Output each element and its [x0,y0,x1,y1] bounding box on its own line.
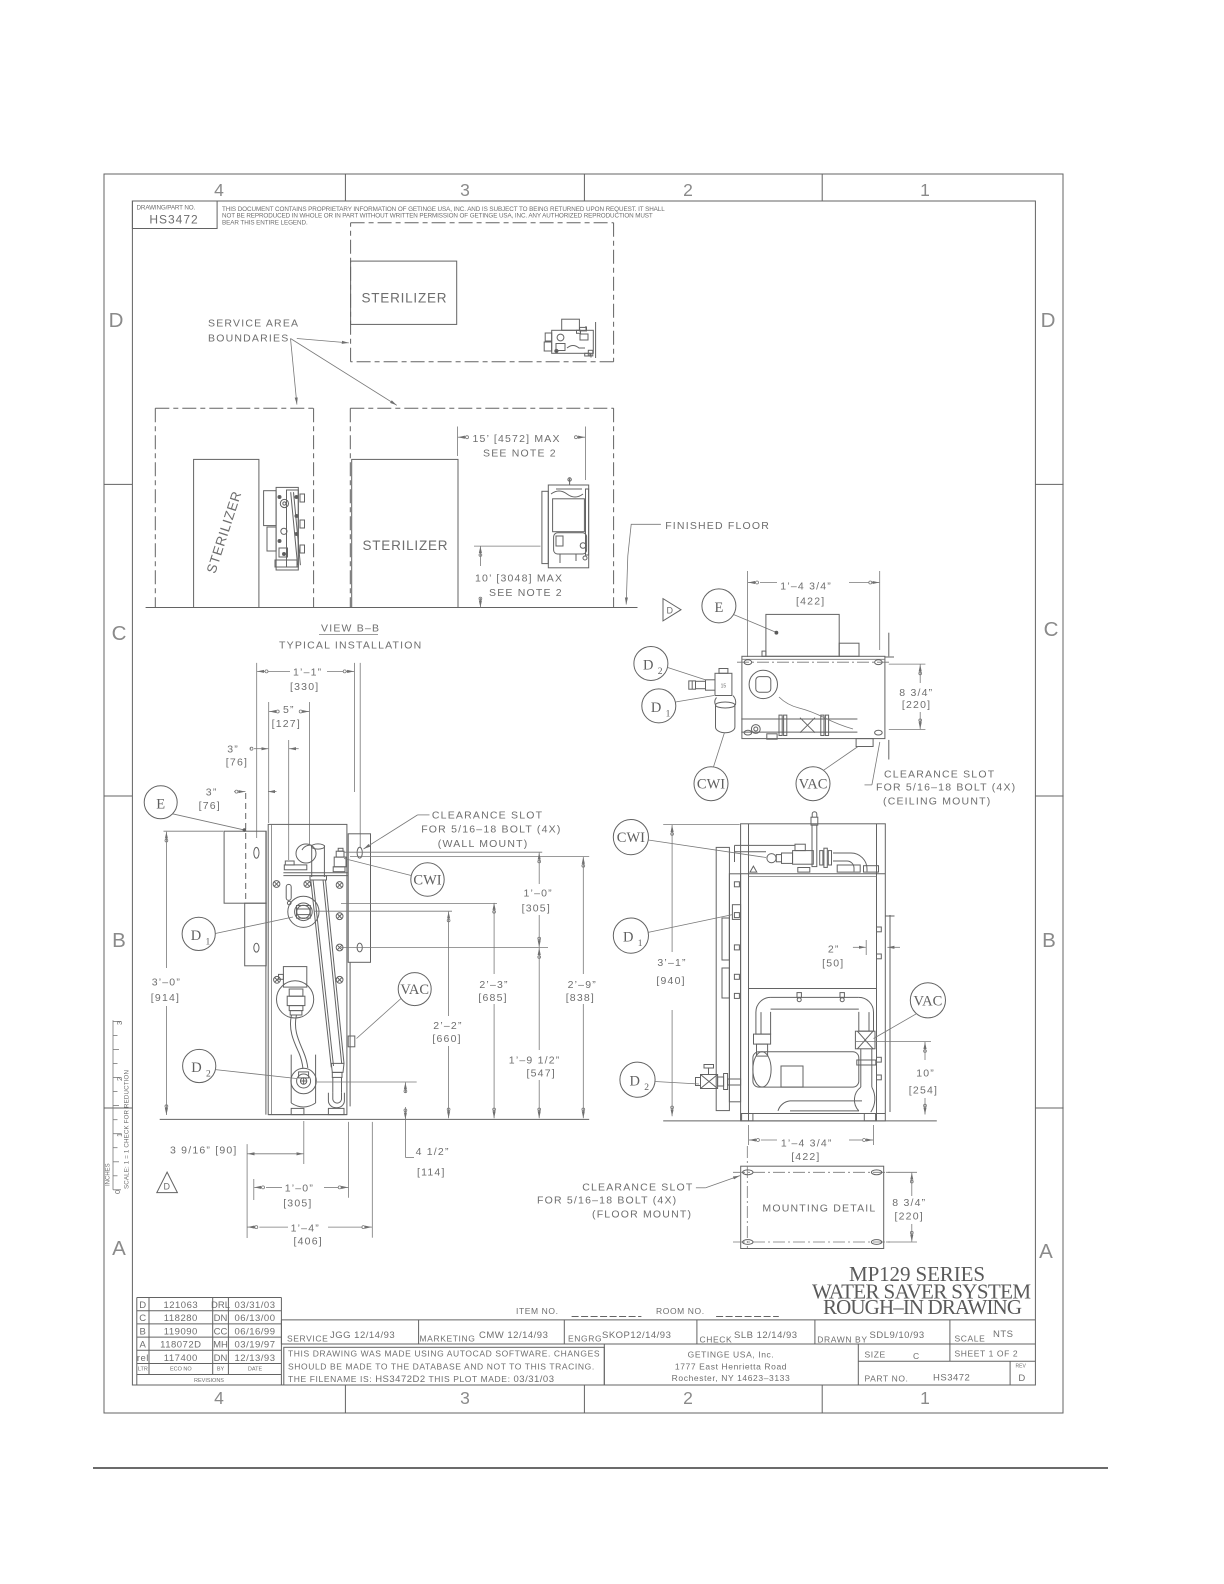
svg-text:06/16/99: 06/16/99 [235,1326,276,1337]
D flag triangle (plan) [663,599,681,621]
svg-text:10’ [3048] MAX: 10’ [3048] MAX [475,573,563,585]
svg-text:CWI: CWI [697,777,725,793]
svg-text:[685]: [685] [478,992,507,1004]
balloon VAC [398,973,431,1006]
svg-text:rel: rel [137,1353,149,1364]
dim 1'-4 3/4" [422] [748,582,756,584]
dim 1'-4 3/4" [422] floor [748,1125,750,1145]
service boundary middle room [350,408,613,607]
service boundary left room [155,408,313,607]
svg-text:[127]: [127] [272,718,301,730]
svg-text:D: D [191,1060,201,1076]
svg-text:D: D [109,309,124,332]
main flex hose diagonal [310,876,344,1078]
zone tick top 2/1 [821,174,823,201]
feet [742,1114,753,1121]
svg-text:D: D [191,928,201,944]
svg-text:SEE NOTE 2: SEE NOTE 2 [483,447,557,459]
10" ref line [856,1041,931,1043]
top piping (floor view) [735,812,879,872]
svg-text:[254]: [254] [909,1085,938,1097]
right plate slot upper [357,847,362,858]
svg-text:[220]: [220] [902,699,931,711]
svg-text:THIS DRAWING WAS MADE USIN: THIS DRAWING WAS MADE USING AUTOCAD SOFT… [288,1349,600,1359]
D flag triangle (front view) [157,1172,178,1193]
svg-text:TYPICAL INSTALLATION: TYPICAL INSTALLATION [279,640,422,652]
equipment icon: plan of floor unit (middle room) [542,478,589,568]
svg-text:D: D [667,606,674,616]
ceiling surface line [888,633,890,657]
svg-text:CLEARANCE SLOT: CLEARANCE SLOT [582,1181,693,1193]
svg-text:MARKETING: MARKETING [420,1334,476,1344]
D2 valve assembly (floor) [696,1065,741,1090]
revision table [137,1298,282,1386]
svg-text:PART NO.: PART NO. [865,1374,909,1384]
svg-text:1777 East Henrietta Road: 1777 East Henrietta Road [675,1362,787,1372]
union fitting below box [277,981,314,1018]
lower U pipe assembly [753,993,876,1113]
dim 3'-1" [940] [663,824,740,826]
D2 port assembly [291,1055,316,1107]
svg-text:D: D [623,930,633,946]
lower right cover line [349,962,351,1106]
svg-text:SHEET 1 OF 2: SHEET 1 OF 2 [955,1349,1019,1359]
svg-text:2’–9”: 2’–9” [568,979,597,991]
unit main body [268,824,347,1114]
dim 2'-2" [660] [448,912,450,1016]
dim 1'-9 1/2" [547] [538,948,540,1050]
svg-text:[114]: [114] [417,1167,446,1179]
top elbow pipe [296,844,325,877]
sight glass [749,670,777,698]
zone tick right D/C [1036,483,1064,485]
svg-text:D: D [651,700,661,716]
svg-text:HS3472: HS3472 [933,1373,970,1384]
sterilizer box top [351,261,457,324]
zone tick left B/A [104,1107,132,1109]
electrical box E [766,614,839,656]
svg-text:119090: 119090 [164,1326,198,1337]
balloon CWI (floor) [613,820,648,855]
svg-text:5”: 5” [283,704,295,716]
zone tick right B/A [1036,1107,1064,1109]
svg-text:E: E [156,797,165,813]
svg-text:8 3/4”: 8 3/4” [899,687,933,699]
dim 8 3/4" [220] ceiling [889,663,926,665]
dim 3" [76] lower [234,791,235,793]
svg-text:[838]: [838] [566,992,595,1004]
svg-text:Rochester, NY 14623–3133: Rochester, NY 14623–3133 [672,1373,791,1383]
svg-text:03/19/97: 03/19/97 [235,1340,276,1351]
zone tick bottom 3/2 [583,1385,585,1413]
svg-text:3”: 3” [227,744,239,756]
svg-text:SCALE: 1 = 1 CHECK FOR RE: SCALE: 1 = 1 CHECK FOR REDUCTION [124,1070,131,1189]
svg-text:[914]: [914] [151,992,180,1004]
dim 3" [76] upper [250,748,251,750]
svg-text:2: 2 [658,667,663,677]
10' max dimension [474,545,541,547]
svg-text:0: 0 [113,1190,122,1194]
lower pipe run [715,696,858,740]
svg-text:1’–4 3/4”: 1’–4 3/4” [781,1137,833,1149]
balloon D2 [183,1049,216,1082]
svg-text:06/13/00: 06/13/00 [235,1313,276,1324]
svg-text:CWI: CWI [617,830,645,846]
svg-text:SLB 12/14/93: SLB 12/14/93 [734,1330,798,1341]
balloon VAC (ceiling) [796,767,830,801]
svg-text:A: A [112,1237,126,1260]
dim 1'-0" [305] bottom [254,1186,261,1188]
svg-text:1: 1 [920,180,930,200]
top left plates [285,861,294,865]
svg-text:SEE NOTE 2: SEE NOTE 2 [489,587,563,599]
leader to left room [291,339,297,405]
slots [743,1170,753,1175]
balloon CWI [411,863,444,896]
sterilizer box middle [352,459,458,607]
svg-text:D: D [1018,1373,1025,1384]
svg-text:CLEARANCE SLOT: CLEARANCE SLOT [432,809,543,821]
svg-text:[76]: [76] [199,800,221,812]
svg-text:1’–4 3/4”: 1’–4 3/4” [780,581,832,593]
D1 fitting + bolts on left edge [722,882,741,999]
svg-text:1: 1 [920,1388,930,1408]
svg-text:(WALL MOUNT): (WALL MOUNT) [438,838,529,850]
svg-text:3’–1”: 3’–1” [657,957,686,969]
svg-text:VIEW B–B: VIEW B–B [321,623,380,635]
main unit body (floor) [741,824,886,1121]
svg-text:[422]: [422] [796,595,825,607]
leader to top room [297,339,349,343]
svg-text:117400: 117400 [164,1353,198,1364]
base feet [268,1108,347,1114]
svg-text:HS3472: HS3472 [149,213,198,227]
equipment icon: plan of wall unit (left room) [264,487,305,570]
svg-text:CHECK: CHECK [700,1335,733,1345]
svg-text:SHOULD BE MADE TO THE DAT: SHOULD BE MADE TO THE DATABASE AND NOT T… [288,1361,595,1371]
svg-text:D: D [643,658,653,674]
svg-text:BEAR THIS ENTIRE LEGEND.: BEAR THIS ENTIRE LEGEND. [222,219,308,226]
dimension arrow tail circles (vertical dims) [165,554,926,1235]
svg-text:B: B [139,1326,146,1337]
svg-text:CC: CC [214,1326,228,1337]
extension lines top [256,663,258,838]
svg-text:C: C [913,1351,920,1361]
D2 level line [317,1081,417,1083]
finished floor line [146,607,638,609]
svg-text:DRL: DRL [211,1300,230,1311]
svg-text:2’–3”: 2’–3” [479,979,508,991]
check ruler [113,1020,121,1190]
svg-text:D: D [630,1074,640,1090]
zone tick right C/B [1036,795,1064,797]
dim 1'-4" [406] [248,1226,255,1228]
svg-text:ENGRG: ENGRG [568,1334,602,1344]
autocad note box [284,1347,605,1385]
svg-text:118280: 118280 [164,1313,198,1324]
break wave line [779,697,853,729]
svg-text:SERVICE AREA: SERVICE AREA [208,318,299,330]
svg-text:[220]: [220] [895,1211,924,1223]
svg-text:DRAWING/PART NO.: DRAWING/PART NO. [137,205,196,212]
svg-text:3”: 3” [206,787,218,799]
balloon VAC (floor) [910,983,945,1018]
svg-text:NTS: NTS [993,1329,1014,1340]
bracket slot upper [254,847,259,858]
D1 port assembly [288,896,319,927]
back panels [716,847,729,1110]
CWI valve assembly [333,848,346,871]
sheet outer border [104,174,1063,1413]
svg-text:STERILIZER: STERILIZER [362,291,447,306]
svg-text:C: C [1044,618,1059,641]
svg-text:1: 1 [206,938,211,948]
adjuster slot [286,884,291,900]
title block grid [281,1319,1035,1321]
svg-text:JGG 12/14/93: JGG 12/14/93 [330,1330,395,1341]
bottom page rule [93,1467,1108,1469]
balloon E [144,786,177,819]
svg-text:1’–1”: 1’–1” [293,667,322,679]
svg-text:GETINGE USA, Inc.: GETINGE USA, Inc. [688,1350,775,1360]
VAC tab on right edge [348,1036,355,1047]
svg-text:DATE: DATE [248,1367,263,1373]
svg-text:2: 2 [644,1083,649,1093]
balloon D2 (floor) [620,1062,655,1097]
svg-text:STERILIZER: STERILIZER [363,538,448,553]
svg-text:A: A [139,1340,146,1351]
svg-text:4: 4 [214,1388,224,1408]
svg-text:3: 3 [115,1021,124,1025]
dim 3'-0" [914] left [164,830,224,832]
svg-text:[406]: [406] [294,1236,323,1248]
right reference lines [344,851,542,853]
svg-text:1’–4”: 1’–4” [291,1222,320,1234]
slot centerlines [733,1171,891,1173]
svg-text:CLEARANCE SLOT: CLEARANCE SLOT [884,769,995,781]
svg-text:FOR 5/16–18 BOLT (4X): FOR 5/16–18 BOLT (4X) [421,824,561,836]
svg-text:3’–0”: 3’–0” [152,977,181,989]
detail rect [741,1166,884,1248]
svg-text:VAC: VAC [914,993,943,1009]
zone tick bottom 2/1 [821,1385,823,1413]
wall line right [889,915,891,1112]
svg-text:B: B [112,929,126,952]
bracket slot lower [254,943,259,952]
dim 2'-9" [838] [582,857,584,974]
svg-text:2: 2 [206,1070,211,1080]
svg-text:SKOP12/14/93: SKOP12/14/93 [602,1330,671,1341]
svg-text:(CEILING MOUNT): (CEILING MOUNT) [883,796,991,808]
svg-text:REVISIONS: REVISIONS [194,1378,224,1384]
equipment icon: plan of ceiling unit (top room) [544,319,595,358]
svg-text:4 1/2”: 4 1/2” [416,1146,450,1158]
right mounting plate [348,834,370,963]
svg-text:VAC: VAC [799,777,828,793]
dim 1'-1" [330] [257,670,265,672]
svg-text:SERVICE: SERVICE [287,1334,328,1344]
svg-text:ROUGH–IN DRAWING: ROUGH–IN DRAWING [823,1295,1022,1319]
balloon D1 (floor) [613,918,648,953]
svg-text:D: D [1041,309,1056,332]
balloon D2 (ceiling) [634,647,668,681]
svg-text:INCHES: INCHES [106,1163,112,1186]
svg-text:DN: DN [214,1353,228,1364]
svg-text:(FLOOR MOUNT): (FLOOR MOUNT) [592,1208,692,1220]
svg-text:[940]: [940] [656,975,685,987]
svg-text:C: C [139,1313,146,1324]
zone tick top 3/2 [583,174,585,201]
svg-text:DRAWN BY: DRAWN BY [817,1335,867,1345]
svg-text:12/13/93: 12/13/93 [235,1353,276,1364]
svg-text:2’–2”: 2’–2” [433,1020,462,1032]
svg-text:2: 2 [683,1388,693,1408]
svg-text:SDL9/10/93: SDL9/10/93 [870,1330,925,1341]
svg-text:[330]: [330] [290,681,319,693]
service boundary top room (dash-dot rect) [351,223,614,362]
svg-text:LTR: LTR [138,1367,148,1373]
dashed conduit line through bracket [245,793,247,903]
svg-text:VAC: VAC [400,982,429,998]
svg-text:121063: 121063 [163,1300,198,1311]
svg-text:[305]: [305] [522,902,551,914]
svg-text:15’ [4572] MAX: 15’ [4572] MAX [473,433,561,445]
zone tick left C/B [104,795,132,797]
svg-text:D: D [164,1182,171,1192]
right plate slot lower [357,943,362,952]
balloon D1 [182,917,215,950]
svg-text:3: 3 [460,180,470,200]
svg-text:1’–0”: 1’–0” [524,888,553,900]
balloon CWI (ceiling) [694,767,728,801]
svg-text:1’–0”: 1’–0” [285,1183,314,1195]
frame rail upper [283,872,348,874]
sterilizer box left (rotated text) [194,459,259,607]
svg-text:MOUNTING DETAIL: MOUNTING DETAIL [762,1203,876,1215]
centerline (dash-dot) [737,661,891,663]
bolts right edge [877,1057,882,1062]
svg-text:C: C [112,622,127,645]
15' max dimension [456,427,458,457]
svg-text:BY: BY [217,1367,225,1373]
svg-text:03/31/03: 03/31/03 [235,1300,276,1311]
S hose to D2 [290,1015,303,1069]
svg-text:[50]: [50] [822,958,844,970]
dim 10" [254] [924,1042,926,1060]
svg-text:B: B [1042,929,1056,952]
svg-text:DN: DN [214,1313,228,1324]
zone tick left D/C [104,483,132,485]
svg-text:CWI: CWI [413,873,441,889]
svg-text:FINISHED FLOOR: FINISHED FLOOR [665,520,770,532]
svg-text:[660]: [660] [432,1033,461,1045]
svg-text:8 3/4”: 8 3/4” [892,1197,926,1209]
sheet inner border [132,201,1035,1385]
drain pipe + U trap [328,1077,344,1107]
svg-text:SCALE: SCALE [955,1334,986,1344]
svg-text:3 9/16” [90]: 3 9/16” [90] [170,1144,238,1156]
balloon D1 (ceiling) [642,689,676,723]
svg-text:[76]: [76] [226,757,248,769]
svg-text:FOR 5/16–18 BOLT (4X): FOR 5/16–18 BOLT (4X) [876,782,1016,794]
dim 1'-0" [305] [538,853,540,884]
dim 4 1/2" [114] [404,1082,406,1093]
svg-text:3: 3 [460,1388,470,1408]
svg-text:1: 1 [638,939,643,949]
svg-text:CMW 12/14/93: CMW 12/14/93 [479,1330,548,1341]
wall bracket lower [245,903,267,966]
svg-text:REV: REV [1016,1364,1027,1370]
svg-text:BOUNDARIES: BOUNDARIES [208,333,289,345]
svg-text:ROOM NO.: ROOM NO. [656,1306,705,1316]
svg-text:MH: MH [213,1340,228,1351]
dim 3 9/16" [90] [248,1153,256,1155]
leader to middle room [291,339,397,406]
svg-text:15: 15 [721,684,727,690]
svg-text:10”: 10” [916,1068,935,1080]
svg-text:1: 1 [666,709,671,719]
main unit body (ceiling) [742,656,885,738]
svg-text:A: A [1039,1240,1053,1263]
svg-text:THE FILENAME IS: HS3472D2: THE FILENAME IS: HS3472D2 THIS PLOT MADE… [288,1374,554,1385]
bolt symbols [273,881,343,984]
svg-text:[305]: [305] [283,1197,312,1209]
svg-text:1’–9 1/2”: 1’–9 1/2” [509,1054,561,1066]
zone tick top 4/3 [344,174,346,201]
dim 8 3/4" [220] detail [886,1171,917,1173]
dim 5" [127] [269,711,276,713]
svg-text:2: 2 [683,180,693,200]
wall bracket upper [224,831,266,903]
dim 2'-3" [685] [493,903,495,974]
svg-text:[422]: [422] [791,1151,820,1163]
drawing/part no box [132,201,217,229]
svg-text:2”: 2” [828,944,840,956]
svg-text:SIZE: SIZE [865,1350,886,1360]
bottom right bracket tab [856,739,873,747]
balloon E (ceiling) [702,589,736,623]
solenoid box D2 branch [283,967,306,988]
svg-text:ITEM NO.: ITEM NO. [516,1306,559,1316]
extension lines [747,571,749,657]
svg-text:FOR 5/16–18 BOLT (4X): FOR 5/16–18 BOLT (4X) [537,1194,677,1206]
flange slots [744,660,752,665]
svg-text:[547]: [547] [527,1068,556,1080]
bottom extension lines [246,1144,248,1238]
solenoid valve D2 (15 box) [689,669,732,696]
svg-text:ECO NO: ECO NO [170,1367,192,1373]
floor baseline [160,1118,590,1120]
baseline floor view [663,1120,937,1122]
svg-text:E: E [714,600,723,616]
zone tick bottom 4/3 [344,1385,346,1413]
svg-text:4: 4 [214,180,224,200]
svg-text:118072D: 118072D [160,1340,201,1351]
svg-text:D: D [139,1300,146,1311]
